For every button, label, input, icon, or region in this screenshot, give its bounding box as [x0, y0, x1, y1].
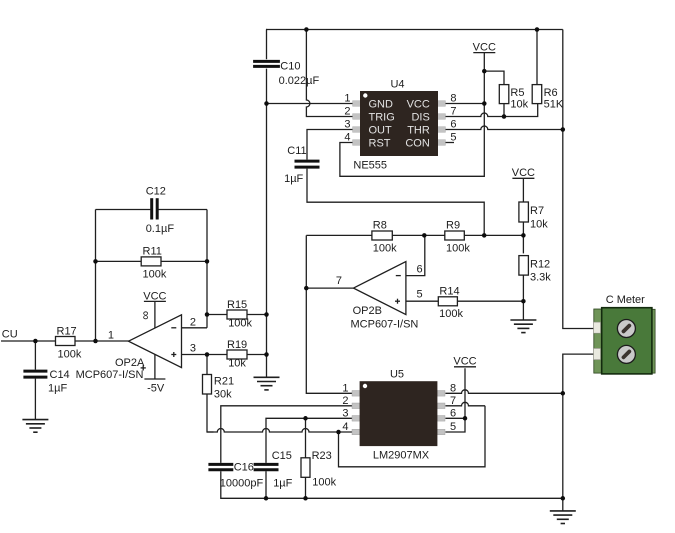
node: C15 bottom	[264, 496, 269, 501]
svg-text:R5: R5	[510, 87, 524, 99]
svg-text:10k: 10k	[228, 358, 246, 370]
svg-text:CON: CON	[405, 138, 430, 150]
svg-text:GND: GND	[369, 99, 394, 111]
svg-text:R9: R9	[446, 220, 460, 232]
resistor R11	[141, 246, 167, 281]
op-amp U1 OP2A	[76, 311, 196, 381]
svg-text:100k: 100k	[312, 477, 336, 489]
wire: R8 R9 row left segment	[306, 234, 372, 236]
svg-text:DIS: DIS	[411, 112, 429, 124]
svg-text:3.3k: 3.3k	[530, 271, 551, 283]
wire: R6 top lead from top rail	[536, 30, 538, 85]
node: U4 pin8 / VCC column	[482, 101, 487, 106]
ground bottom right	[550, 511, 576, 524]
svg-text:NE555: NE555	[353, 160, 387, 172]
svg-text:4: 4	[344, 132, 350, 144]
svg-text:100k: 100k	[446, 242, 470, 254]
power VCC above R5	[473, 42, 496, 54]
wire: VCC lead OP2A	[154, 301, 156, 328]
wire: C15 bottom lead	[265, 471, 267, 498]
svg-text:R14: R14	[439, 285, 459, 297]
svg-text:1µF: 1µF	[273, 478, 292, 490]
node: R17 / feedback / OP2A out	[93, 339, 98, 344]
node: CU / C14 / R17	[33, 339, 38, 344]
wire: VCC R7 lead	[522, 178, 524, 202]
svg-text:R12: R12	[530, 258, 550, 270]
svg-text:100k: 100k	[439, 308, 463, 320]
power VCC above U5	[453, 356, 476, 368]
resistor R14	[438, 285, 463, 320]
svg-text:10k: 10k	[510, 98, 528, 110]
svg-text:U5: U5	[390, 369, 404, 381]
svg-text:C12: C12	[146, 186, 166, 198]
wire: U5 pin6 stub	[445, 417, 465, 419]
wire: R12 bottom lead to ground	[522, 275, 524, 321]
IC U4 NE555	[344, 79, 456, 172]
wire: R7 bottom lead	[522, 222, 524, 235]
wire: R11 row right	[161, 260, 207, 262]
node: R7 / R12 junction	[521, 233, 526, 238]
svg-text:100k: 100k	[58, 349, 82, 361]
svg-text:R8: R8	[373, 220, 387, 232]
capacitor C15	[254, 450, 293, 490]
node: THR row / right rail	[561, 127, 566, 132]
wire: OP2B inverting input riser	[406, 235, 425, 275]
svg-text:5: 5	[450, 421, 456, 433]
svg-text:10k: 10k	[530, 219, 548, 231]
wire: R23 bottom lead	[305, 477, 307, 498]
wire: U5 pin3 row to C15	[266, 418, 352, 463]
resistor R7	[519, 202, 548, 231]
node: top rail / R6	[535, 27, 540, 32]
svg-text:R19: R19	[227, 339, 247, 351]
connector J1 C Meter	[594, 294, 656, 374]
node: R19 right on ground rail	[264, 352, 269, 357]
wire: CU input to R17	[1, 340, 56, 342]
svg-text:1: 1	[344, 93, 350, 105]
capacitor C16	[208, 462, 263, 490]
svg-text:1: 1	[108, 330, 114, 342]
wire: U5 pin7 loop to pin4 junction	[339, 406, 486, 467]
resistor R9	[445, 220, 471, 255]
power VCC above OP2A	[143, 290, 166, 302]
wire: R17 right to OP2A output	[75, 340, 130, 342]
node: R15 left / feedback / inverting	[205, 312, 210, 317]
wire: C14 top lead	[34, 341, 36, 370]
resistor R23	[301, 450, 337, 489]
svg-text:CU: CU	[2, 329, 18, 341]
wire: R23 top lead	[305, 418, 307, 458]
svg-text:1µF: 1µF	[284, 173, 303, 185]
svg-text:1: 1	[342, 382, 348, 394]
IC U5 LM2907MX	[342, 369, 456, 462]
svg-text:VCC: VCC	[453, 356, 476, 368]
wire: OP2A non-inverting input to R19	[182, 354, 228, 356]
svg-text:51K: 51K	[544, 98, 564, 110]
svg-text:OP2A: OP2A	[115, 357, 145, 369]
wire: R11 row left	[96, 260, 142, 262]
wire: R15 left lead	[207, 314, 227, 316]
op-amp U2 OP2B	[336, 262, 423, 331]
wire: U4 pin8 row to VCC column	[445, 103, 484, 105]
wire: U4 pin7 DIS row with hop, to R5 and R6 bottoms	[445, 104, 537, 117]
ground below C14	[22, 420, 48, 433]
svg-text:VCC: VCC	[473, 42, 496, 54]
svg-text:LM2907MX: LM2907MX	[373, 450, 430, 462]
wire: R9 right to R7 R12 junction	[464, 234, 523, 236]
wire: feedback right vertical to inverting input	[206, 210, 208, 328]
node: U5 pin4 / loop junction	[336, 430, 341, 435]
svg-text:7: 7	[450, 395, 456, 407]
svg-text:10000pF: 10000pF	[220, 478, 264, 490]
svg-text:6: 6	[450, 119, 456, 131]
wire: U5 VCC column to pin6 and pin5	[445, 368, 465, 432]
svg-text:7: 7	[450, 106, 456, 118]
svg-text:MCP607-I/SN: MCP607-I/SN	[351, 318, 419, 330]
wire: OP2B output column R8 left to U5 pin1	[306, 235, 352, 393]
wire: OP2A inverting input stub	[182, 327, 208, 329]
svg-text:R11: R11	[143, 246, 162, 258]
wire: R21 top lead	[206, 355, 208, 375]
wire: top rail horizontal	[266, 29, 563, 31]
svg-text:2: 2	[342, 395, 348, 407]
wire: U5 pin8 row with hop to right rail	[445, 390, 562, 394]
svg-text:6: 6	[417, 263, 423, 275]
node: R5 bottom on DIS row	[502, 114, 507, 119]
wire: U4 pin5 CON stub	[445, 142, 454, 144]
node: C11 column / R9 row	[482, 233, 487, 238]
node: R11 left	[93, 259, 98, 264]
wire: OP2B non-inverting input to R14	[406, 300, 438, 302]
svg-text:7: 7	[336, 275, 342, 287]
wire: C meter pin2 to lower right rail	[563, 354, 595, 511]
wire: U4 pin1 GND row	[267, 103, 353, 105]
wire: TRIG column with hop over pin1 row	[306, 30, 352, 117]
svg-text:RST: RST	[369, 138, 391, 150]
svg-text:-5V: -5V	[147, 382, 165, 394]
resistor R8	[372, 220, 397, 255]
svg-text:8: 8	[450, 93, 456, 105]
svg-text:30k: 30k	[214, 388, 232, 400]
svg-text:C Meter: C Meter	[606, 294, 645, 306]
svg-text:R21: R21	[214, 375, 234, 387]
wire: C11 bottom lead	[307, 169, 484, 236]
capacitor C12	[146, 186, 175, 236]
svg-text:∞: ∞	[139, 311, 153, 320]
wire: -5V lead OP2A	[154, 354, 156, 379]
svg-text:3: 3	[190, 342, 196, 354]
resistor R21	[203, 375, 235, 401]
ground below R12 R14	[510, 320, 536, 333]
capacitor C14	[23, 369, 69, 395]
svg-text:R23: R23	[312, 450, 332, 462]
wire: U4 pin3 OUT stub and C11 top lead	[307, 130, 353, 160]
wire: C14 bottom lead to ground	[34, 379, 36, 420]
svg-text:VCC: VCC	[143, 290, 166, 302]
wire: VCC branch to R5 top	[484, 71, 504, 85]
svg-text:R7: R7	[530, 205, 544, 217]
svg-text:THR: THR	[407, 125, 430, 137]
node: VCC / R5 branch	[482, 69, 487, 74]
svg-text:U4: U4	[390, 79, 404, 91]
svg-text:3: 3	[342, 407, 348, 419]
node: U5 pin8 row / right rail	[561, 391, 566, 396]
svg-text:2: 2	[190, 316, 196, 328]
resistor R19	[227, 339, 247, 370]
svg-text:C15: C15	[272, 450, 292, 462]
svg-text:R17: R17	[57, 326, 77, 338]
svg-text:VCC: VCC	[407, 99, 430, 111]
ground below left rail (R15 R19)	[254, 377, 280, 390]
svg-text:100k: 100k	[228, 318, 252, 330]
wire: C12 row right	[158, 209, 207, 211]
wire: U5 pin7 row with hop	[445, 402, 485, 406]
resistor R6	[532, 85, 564, 111]
resistor R17	[56, 326, 82, 361]
wire: R15 right lead to ground rail	[247, 314, 267, 316]
svg-text:VCC: VCC	[512, 167, 535, 179]
svg-text:TRIG: TRIG	[369, 112, 395, 124]
svg-text:6: 6	[450, 407, 456, 419]
svg-text:OP2B: OP2B	[353, 305, 382, 317]
wire: R14 right lead to R12 bottom junction	[457, 300, 523, 302]
svg-text:MCP607-I/SN: MCP607-I/SN	[76, 369, 144, 381]
svg-text:8: 8	[450, 382, 456, 394]
capacitor C11	[284, 145, 319, 185]
svg-text:0.1µF: 0.1µF	[146, 223, 175, 235]
resistor R15	[227, 299, 253, 330]
svg-text:C14: C14	[50, 369, 70, 381]
svg-text:4: 4	[342, 421, 348, 433]
svg-text:5: 5	[417, 289, 423, 301]
wire: C10 top lead from top rail	[265, 30, 268, 60]
wire: feedback left vertical	[95, 210, 97, 342]
svg-text:5: 5	[450, 132, 456, 144]
svg-text:OUT: OUT	[369, 125, 393, 137]
power -5V below OP2A	[144, 379, 165, 394]
power VCC above R7	[512, 167, 535, 179]
node: R23 bottom	[303, 496, 308, 501]
svg-text:C10: C10	[280, 61, 300, 73]
svg-text:0.022µF: 0.022µF	[279, 75, 320, 87]
node: top rail / TRIG	[304, 27, 309, 32]
svg-text:C11: C11	[287, 145, 306, 157]
node: OP2B output junction	[304, 286, 309, 291]
wire: R8 R9 row middle segment	[392, 234, 445, 236]
node: R19 left / R21 / non-inverting	[205, 352, 210, 357]
node: R8 / R9 / OP2B inverting	[422, 233, 427, 238]
svg-text:100k: 100k	[143, 269, 167, 281]
wire: C16 bottom lead and bottom ground wire	[221, 471, 563, 498]
wire: ground rail left (C10 column)	[266, 69, 268, 378]
node: bottom wire / right rail ground	[561, 496, 566, 501]
resistor R5	[499, 85, 528, 111]
wire: OP2B output wire	[306, 287, 353, 289]
resistor R12	[519, 256, 551, 284]
wire: U4 pin6 THR row with hop, to right rail	[445, 126, 562, 130]
svg-text:R15: R15	[227, 299, 247, 311]
node: R12 / R14 / ground junction	[521, 299, 526, 304]
node: C10 / U4 GND row	[264, 101, 269, 106]
capacitor C10	[253, 61, 319, 87]
svg-text:100k: 100k	[373, 242, 397, 254]
node: U5 VCC / pin6	[463, 416, 468, 421]
svg-text:1µF: 1µF	[48, 383, 67, 395]
wire: R21 bottom lead to U5 pin4 row	[207, 394, 214, 432]
wire: U5 pin4 row with three hops	[207, 429, 352, 433]
svg-text:2: 2	[344, 106, 350, 118]
wire: right rail upper to C meter pin1	[563, 30, 595, 329]
wire: R12 top lead	[522, 235, 524, 253]
wire: U5 pin2 row to C16	[221, 406, 353, 463]
svg-text:R6: R6	[544, 87, 558, 99]
node: R23 top / U5 pin3 row	[303, 416, 308, 421]
svg-text:3: 3	[344, 119, 350, 131]
svg-text:C16: C16	[234, 462, 254, 474]
wire: U4 pin4 RST loop to VCC column	[340, 52, 484, 176]
wire: R5 bottom lead	[503, 104, 505, 117]
wire: R19 right lead to ground rail	[247, 354, 267, 356]
node: R11 right	[205, 259, 210, 264]
wire: C12 row left	[96, 209, 151, 211]
node: R15 right on ground rail	[264, 312, 269, 317]
